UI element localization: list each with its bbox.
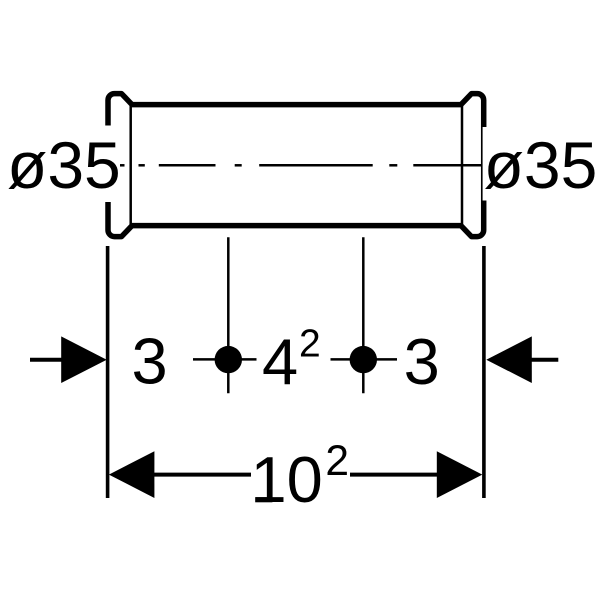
svg-text:ø35: ø35 [484, 128, 598, 202]
svg-text:ø35: ø35 [7, 128, 121, 202]
svg-text:10: 10 [251, 443, 323, 516]
svg-text:4: 4 [262, 325, 298, 398]
svg-text:2: 2 [299, 323, 321, 366]
svg-text:3: 3 [132, 325, 168, 398]
svg-text:2: 2 [325, 438, 349, 485]
svg-text:3: 3 [404, 325, 440, 398]
